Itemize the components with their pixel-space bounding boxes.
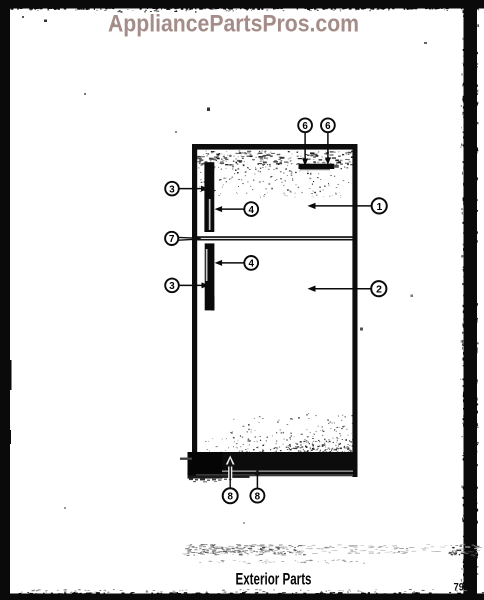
arrow: callout 4a to freezer handle (215, 206, 244, 212)
callout circle 4b (244, 256, 258, 270)
scan border: bottom black bar (10, 589, 484, 600)
scan border: left black bar (0, 0, 12, 600)
callout circle 6a (298, 118, 312, 132)
svg-text:8: 8 (227, 492, 233, 503)
arrow: callout 8a into kickplate (white halo) (226, 456, 235, 489)
caption: Exterior Parts (236, 570, 312, 589)
callout circle 8b (250, 489, 264, 503)
svg-text:4: 4 (248, 205, 254, 216)
arrow: callout 3a to freezer handle (179, 186, 209, 192)
scan border: right black bar (461, 6, 479, 600)
cabinet outline: top edge (192, 144, 358, 150)
svg-text:2: 2 (376, 285, 382, 296)
refrigerator door handle (lower left) (205, 243, 215, 310)
callout circle 3a (165, 182, 179, 196)
callout circle 4a (244, 202, 258, 216)
wire: callout 7 leaders (179, 236, 202, 241)
arrow: callout 3b to door handle (179, 282, 209, 288)
callout circle 3b (165, 279, 179, 293)
svg-text:Exterior Parts: Exterior Parts (236, 570, 312, 589)
svg-text:4: 4 (248, 259, 254, 270)
arrow: callout 1 to freezer door (308, 203, 372, 209)
svg-text:1: 1 (377, 202, 383, 213)
svg-text:8: 8 (255, 491, 261, 502)
arrow: callout 4b to door handle (215, 260, 244, 266)
freezer door handle (upper left) (204, 162, 214, 232)
callout circle 6b (321, 118, 335, 132)
arrow: callout 6b to trim (325, 133, 331, 166)
cabinet outline: right edge (352, 144, 357, 477)
svg-text:AppliancePartsPros.com: AppliancePartsPros.com (108, 12, 359, 38)
svg-text:3: 3 (169, 281, 175, 292)
top trim strip (part 6 target) (299, 164, 339, 171)
cabinet texture (speckles, top band) (197, 151, 355, 198)
cabinet outline: left edge (192, 144, 197, 457)
door divider double line (part 7 target) (197, 236, 354, 240)
stray scan specks (22, 16, 427, 524)
callout circle 8a (223, 488, 238, 503)
arrow: callout 6a to trim (302, 133, 308, 167)
kickplate / bottom black band (180, 452, 358, 482)
cabinet texture (speckles, above kickplate) (205, 413, 355, 453)
svg-text:79: 79 (454, 581, 465, 593)
bottom smudge band (182, 544, 482, 564)
scan border: top black bar (0, 0, 484, 13)
arrow: callout 8b to kickplate seam (255, 469, 260, 489)
callout circle 1 (372, 198, 387, 213)
callout circle 2 (371, 281, 386, 296)
svg-text:3: 3 (169, 184, 175, 195)
svg-text:7: 7 (169, 234, 175, 245)
page number 79 (454, 581, 465, 593)
watermark: AppliancePartsPros.com (108, 12, 359, 38)
callout circle 7 (165, 232, 178, 245)
svg-text:6: 6 (325, 121, 331, 132)
svg-text:6: 6 (302, 121, 308, 132)
arrow: callout 2 to refrigerator door (308, 286, 371, 292)
